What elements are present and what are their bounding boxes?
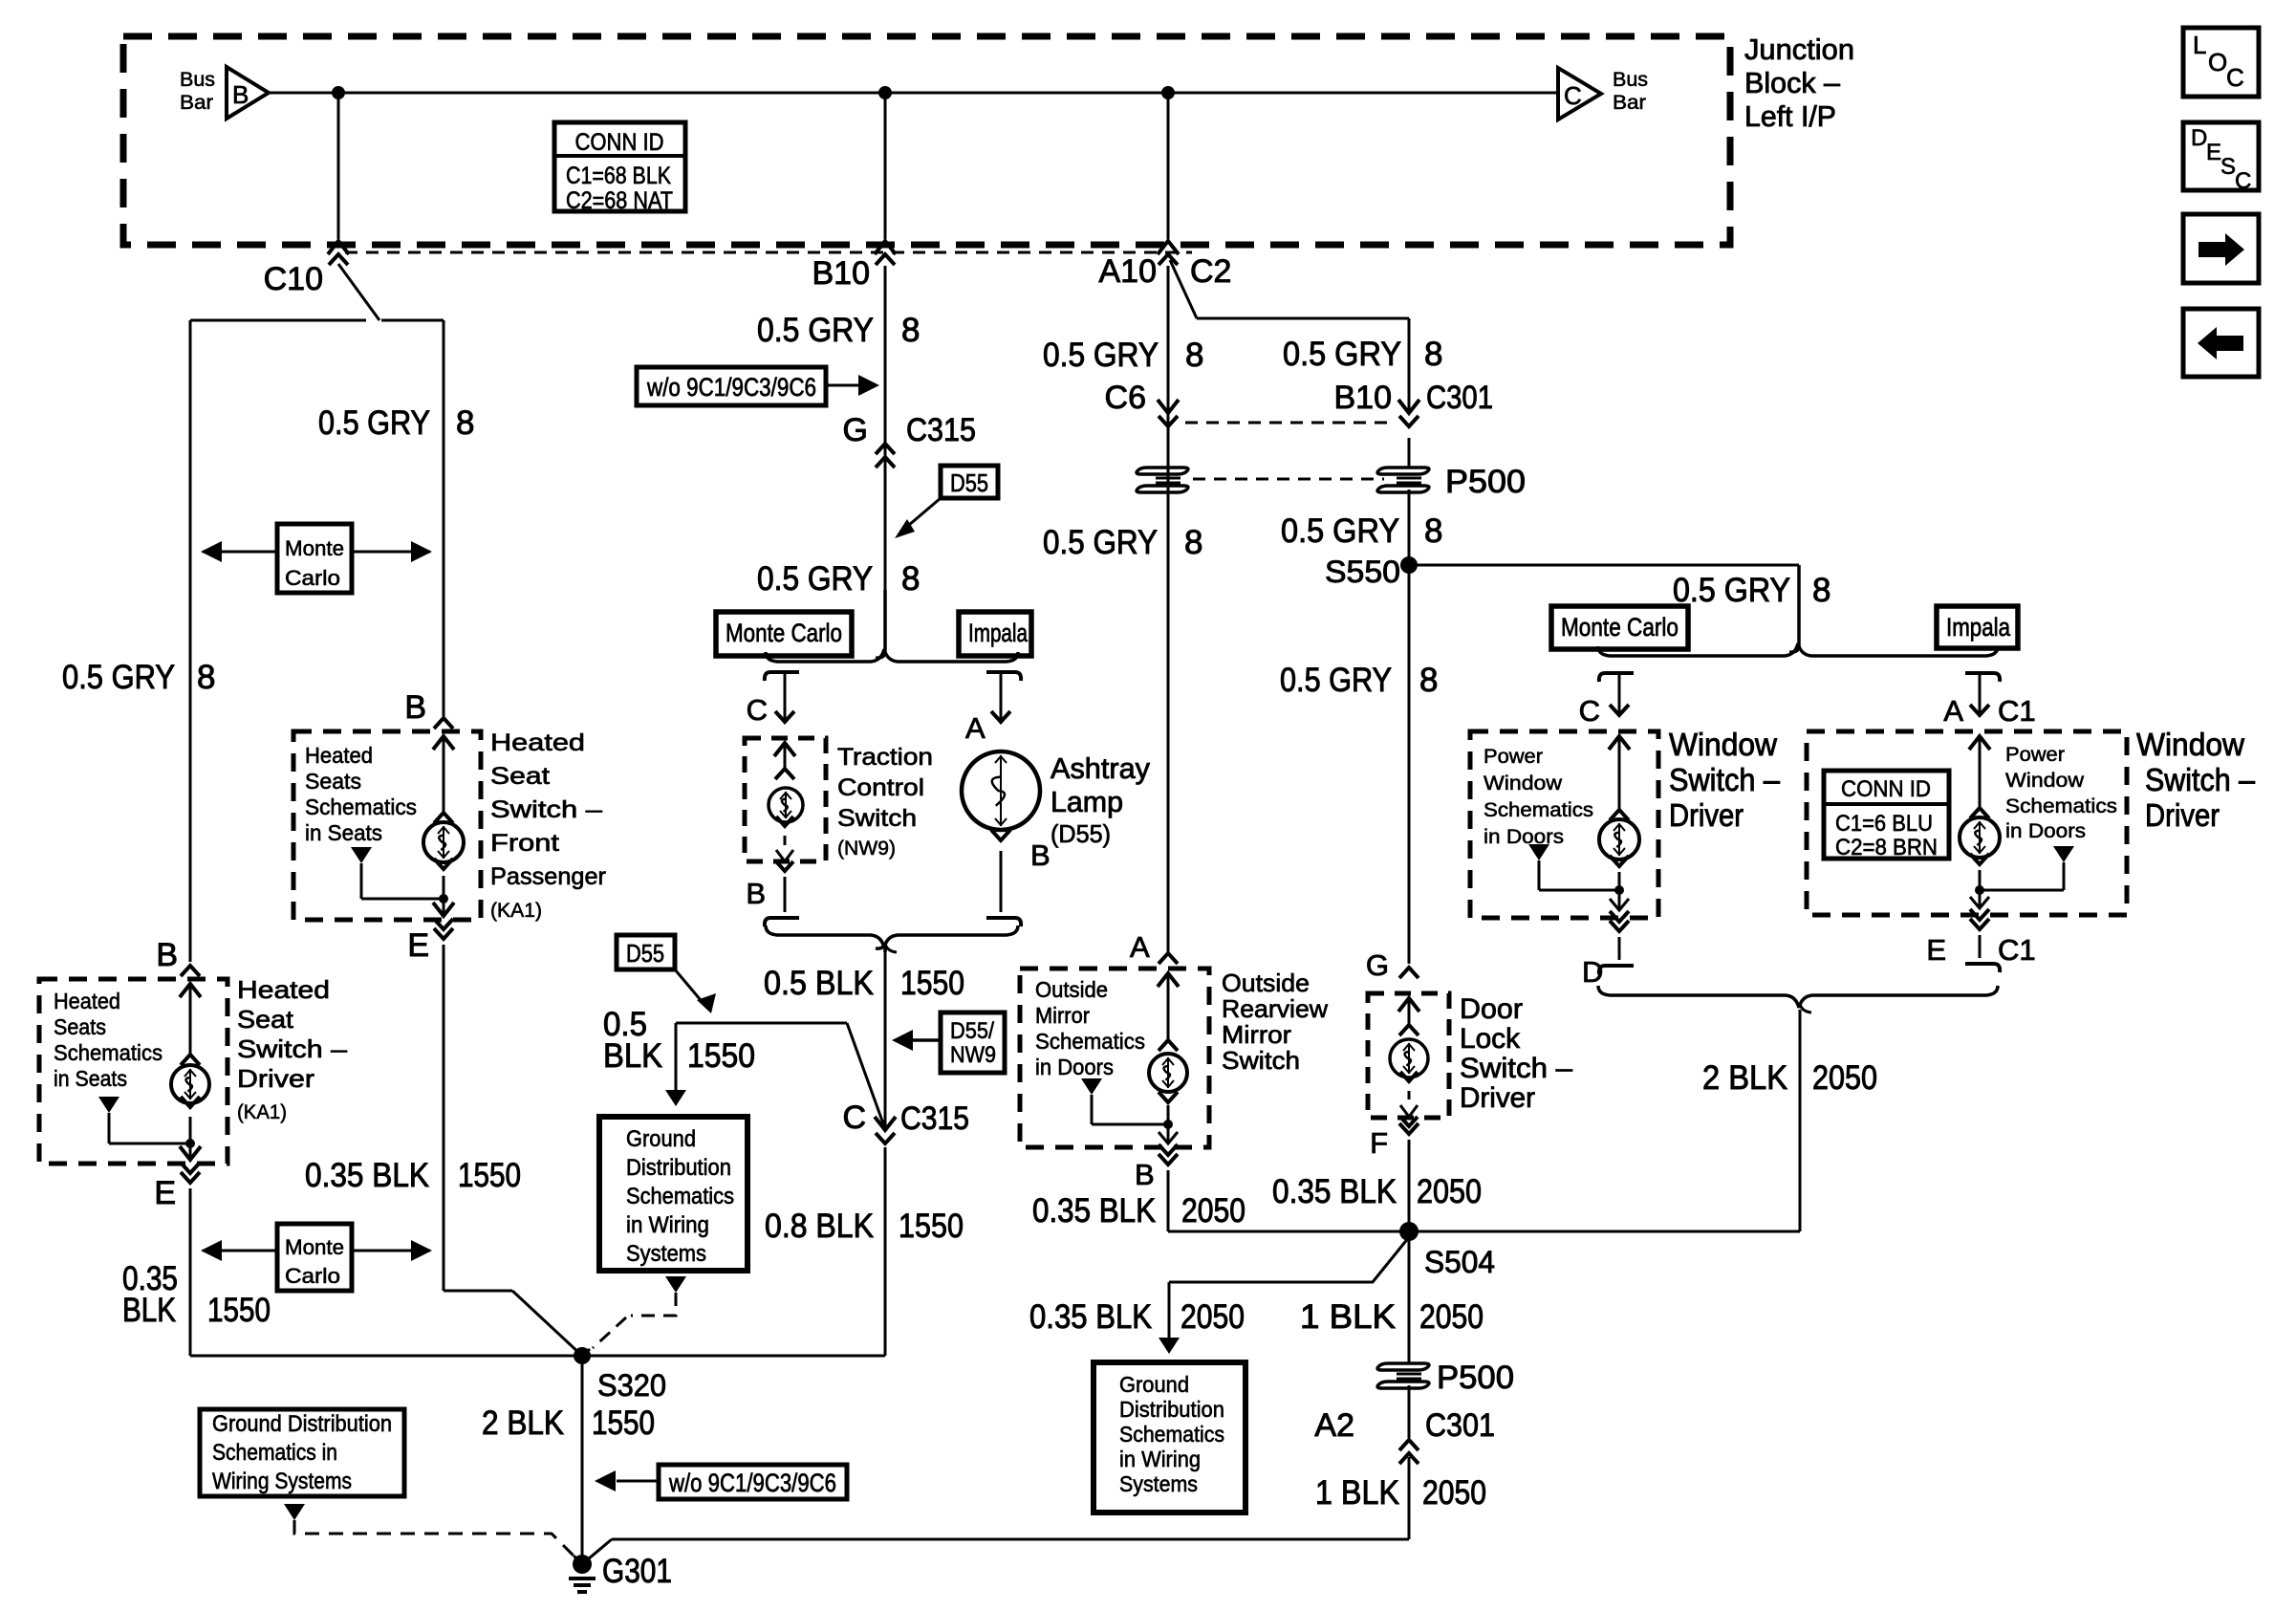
svg-text:8: 8 <box>901 312 920 349</box>
svg-text:Seat: Seat <box>237 1005 294 1034</box>
svg-text:S550: S550 <box>1325 555 1400 589</box>
svg-text:Window: Window <box>2136 727 2244 762</box>
svg-text:Driver: Driver <box>1460 1082 1535 1114</box>
svg-text:C1=68 BLK: C1=68 BLK <box>566 163 671 189</box>
svg-text:S320: S320 <box>597 1368 666 1403</box>
svg-text:in Doors: in Doors <box>1035 1055 1114 1079</box>
svg-text:1550: 1550 <box>207 1292 271 1329</box>
svg-text:Ground Distribution: Ground Distribution <box>212 1411 392 1437</box>
svg-text:Systems: Systems <box>1119 1471 1198 1496</box>
svg-text:Mirror: Mirror <box>1035 1003 1090 1028</box>
svg-text:Traction: Traction <box>837 744 933 771</box>
svg-text:0.35 BLK: 0.35 BLK <box>1272 1173 1397 1210</box>
svg-text:G301: G301 <box>602 1553 672 1590</box>
svg-text:Switch –: Switch – <box>2145 762 2256 797</box>
svg-text:D55/: D55/ <box>950 1018 994 1044</box>
svg-text:0.5 GRY: 0.5 GRY <box>1043 524 1158 561</box>
svg-text:B: B <box>156 937 178 973</box>
svg-text:S: S <box>2220 154 2236 180</box>
svg-text:D: D <box>2191 125 2207 151</box>
svg-text:2050: 2050 <box>1417 1173 1482 1210</box>
svg-text:Block –: Block – <box>1744 66 1841 99</box>
svg-text:in Wiring: in Wiring <box>626 1212 709 1238</box>
svg-text:D55: D55 <box>950 468 988 497</box>
svg-text:Lamp: Lamp <box>1051 785 1123 818</box>
svg-text:B: B <box>404 689 426 726</box>
svg-text:Ashtray: Ashtray <box>1051 751 1150 785</box>
svg-text:C301: C301 <box>1426 380 1493 416</box>
svg-text:G: G <box>843 412 868 448</box>
svg-text:Rearview: Rearview <box>1222 994 1328 1023</box>
svg-text:Passenger: Passenger <box>490 863 606 890</box>
svg-text:2050: 2050 <box>1812 1059 1877 1097</box>
svg-text:0.5 GRY: 0.5 GRY <box>1673 572 1790 609</box>
svg-text:S504: S504 <box>1424 1245 1495 1279</box>
svg-text:C6: C6 <box>1105 380 1146 416</box>
svg-text:(KA1): (KA1) <box>490 900 542 922</box>
svg-text:A: A <box>965 711 986 745</box>
svg-text:8: 8 <box>456 404 474 442</box>
svg-text:1 BLK: 1 BLK <box>1300 1298 1396 1336</box>
svg-text:Distribution: Distribution <box>626 1155 731 1181</box>
svg-text:8: 8 <box>1419 662 1438 699</box>
svg-text:Power: Power <box>2005 744 2065 766</box>
svg-text:(NW9): (NW9) <box>837 838 896 860</box>
svg-text:Monte: Monte <box>285 1235 344 1259</box>
svg-text:C2=68 NAT: C2=68 NAT <box>566 187 673 214</box>
svg-text:P500: P500 <box>1437 1360 1514 1396</box>
svg-text:CONN ID: CONN ID <box>575 129 664 156</box>
svg-text:Driver: Driver <box>1669 797 1744 833</box>
svg-text:A2: A2 <box>1314 1407 1354 1444</box>
svg-text:Control: Control <box>837 774 924 801</box>
svg-text:Impala: Impala <box>1946 613 2011 642</box>
svg-text:0.8 BLK: 0.8 BLK <box>765 1208 874 1245</box>
svg-text:Schematics: Schematics <box>626 1184 734 1209</box>
svg-text:2 BLK: 2 BLK <box>1702 1059 1787 1097</box>
svg-text:in Seats: in Seats <box>305 820 382 845</box>
svg-text:in Seats: in Seats <box>54 1066 127 1091</box>
svg-text:P500: P500 <box>1445 464 1526 500</box>
svg-text:C1: C1 <box>1998 933 2036 967</box>
svg-text:(D55): (D55) <box>1051 819 1111 848</box>
svg-text:0.5 GRY: 0.5 GRY <box>62 659 175 696</box>
svg-text:E: E <box>1926 933 1946 967</box>
svg-text:0.5 BLK: 0.5 BLK <box>764 965 874 1002</box>
svg-text:Left I/P: Left I/P <box>1744 99 1836 133</box>
svg-text:C315: C315 <box>906 412 976 448</box>
svg-text:1550: 1550 <box>899 1208 964 1245</box>
svg-text:Distribution: Distribution <box>1119 1397 1224 1422</box>
svg-text:Heated: Heated <box>490 729 585 756</box>
svg-text:Window: Window <box>2005 770 2085 792</box>
svg-text:C: C <box>2226 63 2244 92</box>
svg-text:Ground: Ground <box>626 1126 696 1152</box>
svg-text:1550: 1550 <box>687 1037 755 1075</box>
svg-text:Monte Carlo: Monte Carlo <box>726 619 842 647</box>
svg-text:in Wiring: in Wiring <box>1119 1447 1201 1471</box>
svg-text:BLK: BLK <box>122 1292 176 1329</box>
svg-text:Switch: Switch <box>837 805 917 832</box>
svg-text:Junction: Junction <box>1744 33 1854 66</box>
svg-text:E: E <box>407 927 429 964</box>
svg-text:C1: C1 <box>1998 694 2036 728</box>
svg-text:1 BLK: 1 BLK <box>1315 1474 1399 1512</box>
svg-text:F: F <box>1370 1126 1388 1160</box>
svg-text:C: C <box>2235 168 2251 194</box>
svg-text:0.5 GRY: 0.5 GRY <box>1280 662 1392 699</box>
svg-text:Seats: Seats <box>305 769 361 794</box>
svg-text:w/o 9C1/9C3/9C6: w/o 9C1/9C3/9C6 <box>646 373 816 402</box>
svg-text:Schematics: Schematics <box>54 1040 162 1065</box>
svg-text:Heated: Heated <box>305 743 373 768</box>
svg-text:C10: C10 <box>264 261 323 297</box>
svg-text:Power: Power <box>1484 746 1543 768</box>
svg-text:C2=8 BRN: C2=8 BRN <box>1835 835 1938 860</box>
svg-text:Schematics in: Schematics in <box>212 1440 337 1466</box>
svg-text:B: B <box>232 80 249 109</box>
svg-text:Switch –: Switch – <box>1669 762 1781 797</box>
svg-text:B10: B10 <box>812 255 871 292</box>
svg-text:C315: C315 <box>900 1100 969 1137</box>
svg-text:Bus: Bus <box>180 69 215 91</box>
svg-text:1550: 1550 <box>900 965 964 1002</box>
svg-text:Seats: Seats <box>54 1014 106 1039</box>
svg-text:Wiring Systems: Wiring Systems <box>212 1469 352 1494</box>
svg-text:Schematics: Schematics <box>1484 799 1593 821</box>
svg-text:B10: B10 <box>1334 380 1393 416</box>
svg-text:0.5 GRY: 0.5 GRY <box>1281 512 1399 550</box>
svg-text:Carlo: Carlo <box>285 1264 340 1288</box>
svg-text:in Doors: in Doors <box>1484 826 1564 848</box>
svg-text:(KA1): (KA1) <box>237 1101 287 1123</box>
svg-text:Switch –: Switch – <box>1460 1053 1572 1084</box>
svg-text:Schematics: Schematics <box>1119 1422 1224 1447</box>
svg-text:0.5 GRY: 0.5 GRY <box>757 312 874 349</box>
svg-text:A: A <box>1130 930 1150 964</box>
svg-text:CONN ID: CONN ID <box>1841 776 1931 802</box>
svg-text:1550: 1550 <box>592 1404 655 1442</box>
svg-text:A: A <box>1943 694 1963 728</box>
svg-text:Seat: Seat <box>490 763 550 790</box>
svg-text:Monte: Monte <box>285 536 344 560</box>
svg-text:Carlo: Carlo <box>285 566 340 590</box>
svg-text:Outside: Outside <box>1222 969 1310 997</box>
svg-text:Schematics: Schematics <box>2005 795 2117 817</box>
svg-text:8: 8 <box>1424 336 1442 373</box>
svg-text:C: C <box>842 1099 866 1136</box>
svg-text:8: 8 <box>1184 524 1202 561</box>
svg-text:A10: A10 <box>1099 253 1158 290</box>
svg-text:Switch –: Switch – <box>490 796 602 823</box>
svg-text:C301: C301 <box>1425 1407 1495 1444</box>
svg-text:Switch: Switch <box>1222 1046 1300 1075</box>
svg-text:Monte Carlo: Monte Carlo <box>1561 613 1679 642</box>
svg-text:Bus: Bus <box>1613 69 1648 91</box>
svg-text:Driver: Driver <box>2145 797 2220 833</box>
svg-text:Impala: Impala <box>968 619 1029 647</box>
svg-text:Window: Window <box>1484 773 1563 795</box>
svg-text:C2: C2 <box>1190 253 1231 290</box>
svg-text:C1=6 BLU: C1=6 BLU <box>1835 811 1933 837</box>
svg-text:2050: 2050 <box>1422 1474 1486 1512</box>
svg-text:0.5 GRY: 0.5 GRY <box>1283 336 1401 373</box>
svg-text:E: E <box>2206 140 2221 165</box>
svg-text:0.35 BLK: 0.35 BLK <box>1032 1192 1156 1230</box>
svg-text:E: E <box>154 1175 176 1211</box>
svg-text:Driver: Driver <box>237 1064 314 1093</box>
svg-text:Switch –: Switch – <box>237 1034 348 1063</box>
svg-text:Lock: Lock <box>1460 1023 1521 1055</box>
svg-text:0.5 GRY: 0.5 GRY <box>318 404 430 442</box>
svg-text:C: C <box>747 693 768 727</box>
svg-text:0.5 GRY: 0.5 GRY <box>1043 337 1159 374</box>
svg-text:in Doors: in Doors <box>2005 820 2086 842</box>
svg-text:Window: Window <box>1669 727 1777 762</box>
svg-text:Heated: Heated <box>54 989 120 1013</box>
svg-text:Bar: Bar <box>180 92 213 114</box>
svg-text:B: B <box>746 877 766 910</box>
svg-text:w/o 9C1/9C3/9C6: w/o 9C1/9C3/9C6 <box>668 1469 836 1497</box>
svg-text:B: B <box>1135 1158 1155 1191</box>
svg-text:BLK: BLK <box>603 1037 662 1075</box>
svg-text:8: 8 <box>197 659 215 696</box>
svg-text:D55: D55 <box>626 939 664 968</box>
svg-text:B: B <box>1030 838 1051 872</box>
svg-text:0.5 GRY: 0.5 GRY <box>757 560 873 598</box>
svg-text:Heated: Heated <box>237 975 330 1004</box>
svg-text:Mirror: Mirror <box>1222 1020 1291 1049</box>
svg-text:Door: Door <box>1460 993 1523 1025</box>
svg-text:2050: 2050 <box>1419 1298 1484 1336</box>
svg-text:8: 8 <box>1185 337 1203 374</box>
svg-text:8: 8 <box>901 560 920 598</box>
svg-text:0.35 BLK: 0.35 BLK <box>305 1157 429 1194</box>
svg-text:Schematics: Schematics <box>1035 1029 1145 1054</box>
svg-text:Systems: Systems <box>626 1241 706 1267</box>
svg-text:G: G <box>1366 948 1389 982</box>
svg-text:NW9: NW9 <box>950 1042 996 1068</box>
svg-text:Schematics: Schematics <box>305 795 417 819</box>
svg-text:C: C <box>1579 694 1600 728</box>
svg-text:8: 8 <box>1424 512 1442 550</box>
svg-text:1550: 1550 <box>458 1157 521 1194</box>
svg-text:Outside: Outside <box>1035 977 1108 1002</box>
svg-text:Bar: Bar <box>1613 92 1646 114</box>
svg-text:2 BLK: 2 BLK <box>482 1404 564 1442</box>
svg-text:Ground: Ground <box>1119 1372 1189 1397</box>
svg-text:2050: 2050 <box>1180 1298 1245 1336</box>
svg-text:C: C <box>1564 81 1582 110</box>
svg-text:2050: 2050 <box>1181 1192 1245 1230</box>
svg-text:Front: Front <box>490 830 559 857</box>
svg-text:O: O <box>2208 48 2227 76</box>
svg-text:L: L <box>2193 31 2206 59</box>
svg-text:8: 8 <box>1812 572 1830 609</box>
svg-text:0.35 BLK: 0.35 BLK <box>1029 1298 1152 1336</box>
